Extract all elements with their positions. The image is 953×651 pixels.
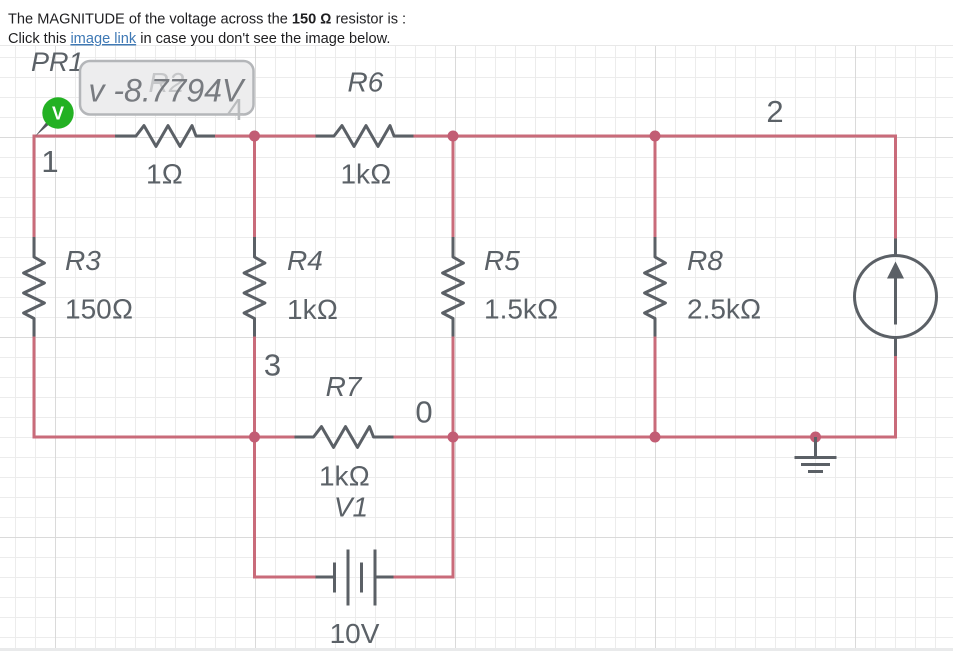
- junction node 2 top: [650, 131, 661, 142]
- svg-text:V1: V1: [334, 492, 368, 523]
- wire left column: [33, 135, 36, 439]
- svg-text:10V: 10V: [330, 618, 380, 649]
- wire column node0 (R5): [452, 136, 455, 437]
- resistor R4: [244, 237, 265, 337]
- resistor R5: [443, 237, 464, 337]
- resistor R8: [645, 237, 666, 337]
- wire right column: [894, 135, 897, 439]
- canvas bottom band: [0, 648, 953, 651]
- svg-text:R6: R6: [348, 67, 384, 98]
- junction node 4 top: [249, 131, 260, 142]
- resistor R6: [316, 126, 414, 147]
- svg-text:2.5kΩ: 2.5kΩ: [687, 294, 761, 325]
- probe PR1 circle: [42, 97, 73, 128]
- resistor R7: [295, 427, 394, 448]
- svg-text:R5: R5: [484, 245, 520, 276]
- junction R8 bottom: [650, 432, 661, 443]
- wire battery loop: [255, 437, 454, 577]
- svg-text:The MAGNITUDE of the voltage a: The MAGNITUDE of the voltage across the …: [8, 12, 406, 28]
- svg-text:1kΩ: 1kΩ: [319, 461, 370, 492]
- wire column R8: [654, 136, 657, 437]
- svg-text:2: 2: [766, 94, 783, 129]
- wire column node3 (R4): [253, 136, 256, 437]
- svg-text:3: 3: [264, 348, 281, 383]
- svg-text:v -8.7794V: v -8.7794V: [89, 73, 246, 109]
- junction ground: [810, 432, 821, 443]
- svg-text:1kΩ: 1kΩ: [287, 294, 338, 325]
- junction node 3 bottom: [249, 432, 260, 443]
- battery V1: [316, 550, 394, 606]
- junction node 0 bottom: [448, 432, 459, 443]
- svg-text:R3: R3: [65, 245, 101, 276]
- svg-text:Click this image link in case: Click this image link in case you don't …: [8, 31, 390, 47]
- wire bottom: [34, 436, 896, 439]
- svg-text:R7: R7: [326, 371, 363, 402]
- svg-text:1.5kΩ: 1.5kΩ: [484, 294, 558, 325]
- svg-text:R8: R8: [687, 245, 723, 276]
- ground: [795, 437, 837, 472]
- resistor R2 (1 ohm): [115, 126, 215, 147]
- svg-text:PR1: PR1: [31, 47, 84, 77]
- svg-text:1Ω: 1Ω: [146, 159, 183, 190]
- svg-text:1kΩ: 1kΩ: [340, 159, 391, 190]
- probe tooltip box: [80, 61, 254, 115]
- svg-text:V: V: [52, 104, 64, 124]
- junction node 0 top: [448, 131, 459, 142]
- probe needle: [35, 122, 49, 137]
- resistor R3: [24, 237, 45, 337]
- canvas top edge: [0, 45, 953, 47]
- svg-text:0: 0: [415, 395, 432, 430]
- svg-text:150Ω: 150Ω: [65, 294, 133, 325]
- wire top: [34, 135, 896, 578]
- svg-text:R4: R4: [287, 245, 323, 276]
- current source I1: [855, 239, 937, 357]
- svg-text:1: 1: [41, 144, 58, 179]
